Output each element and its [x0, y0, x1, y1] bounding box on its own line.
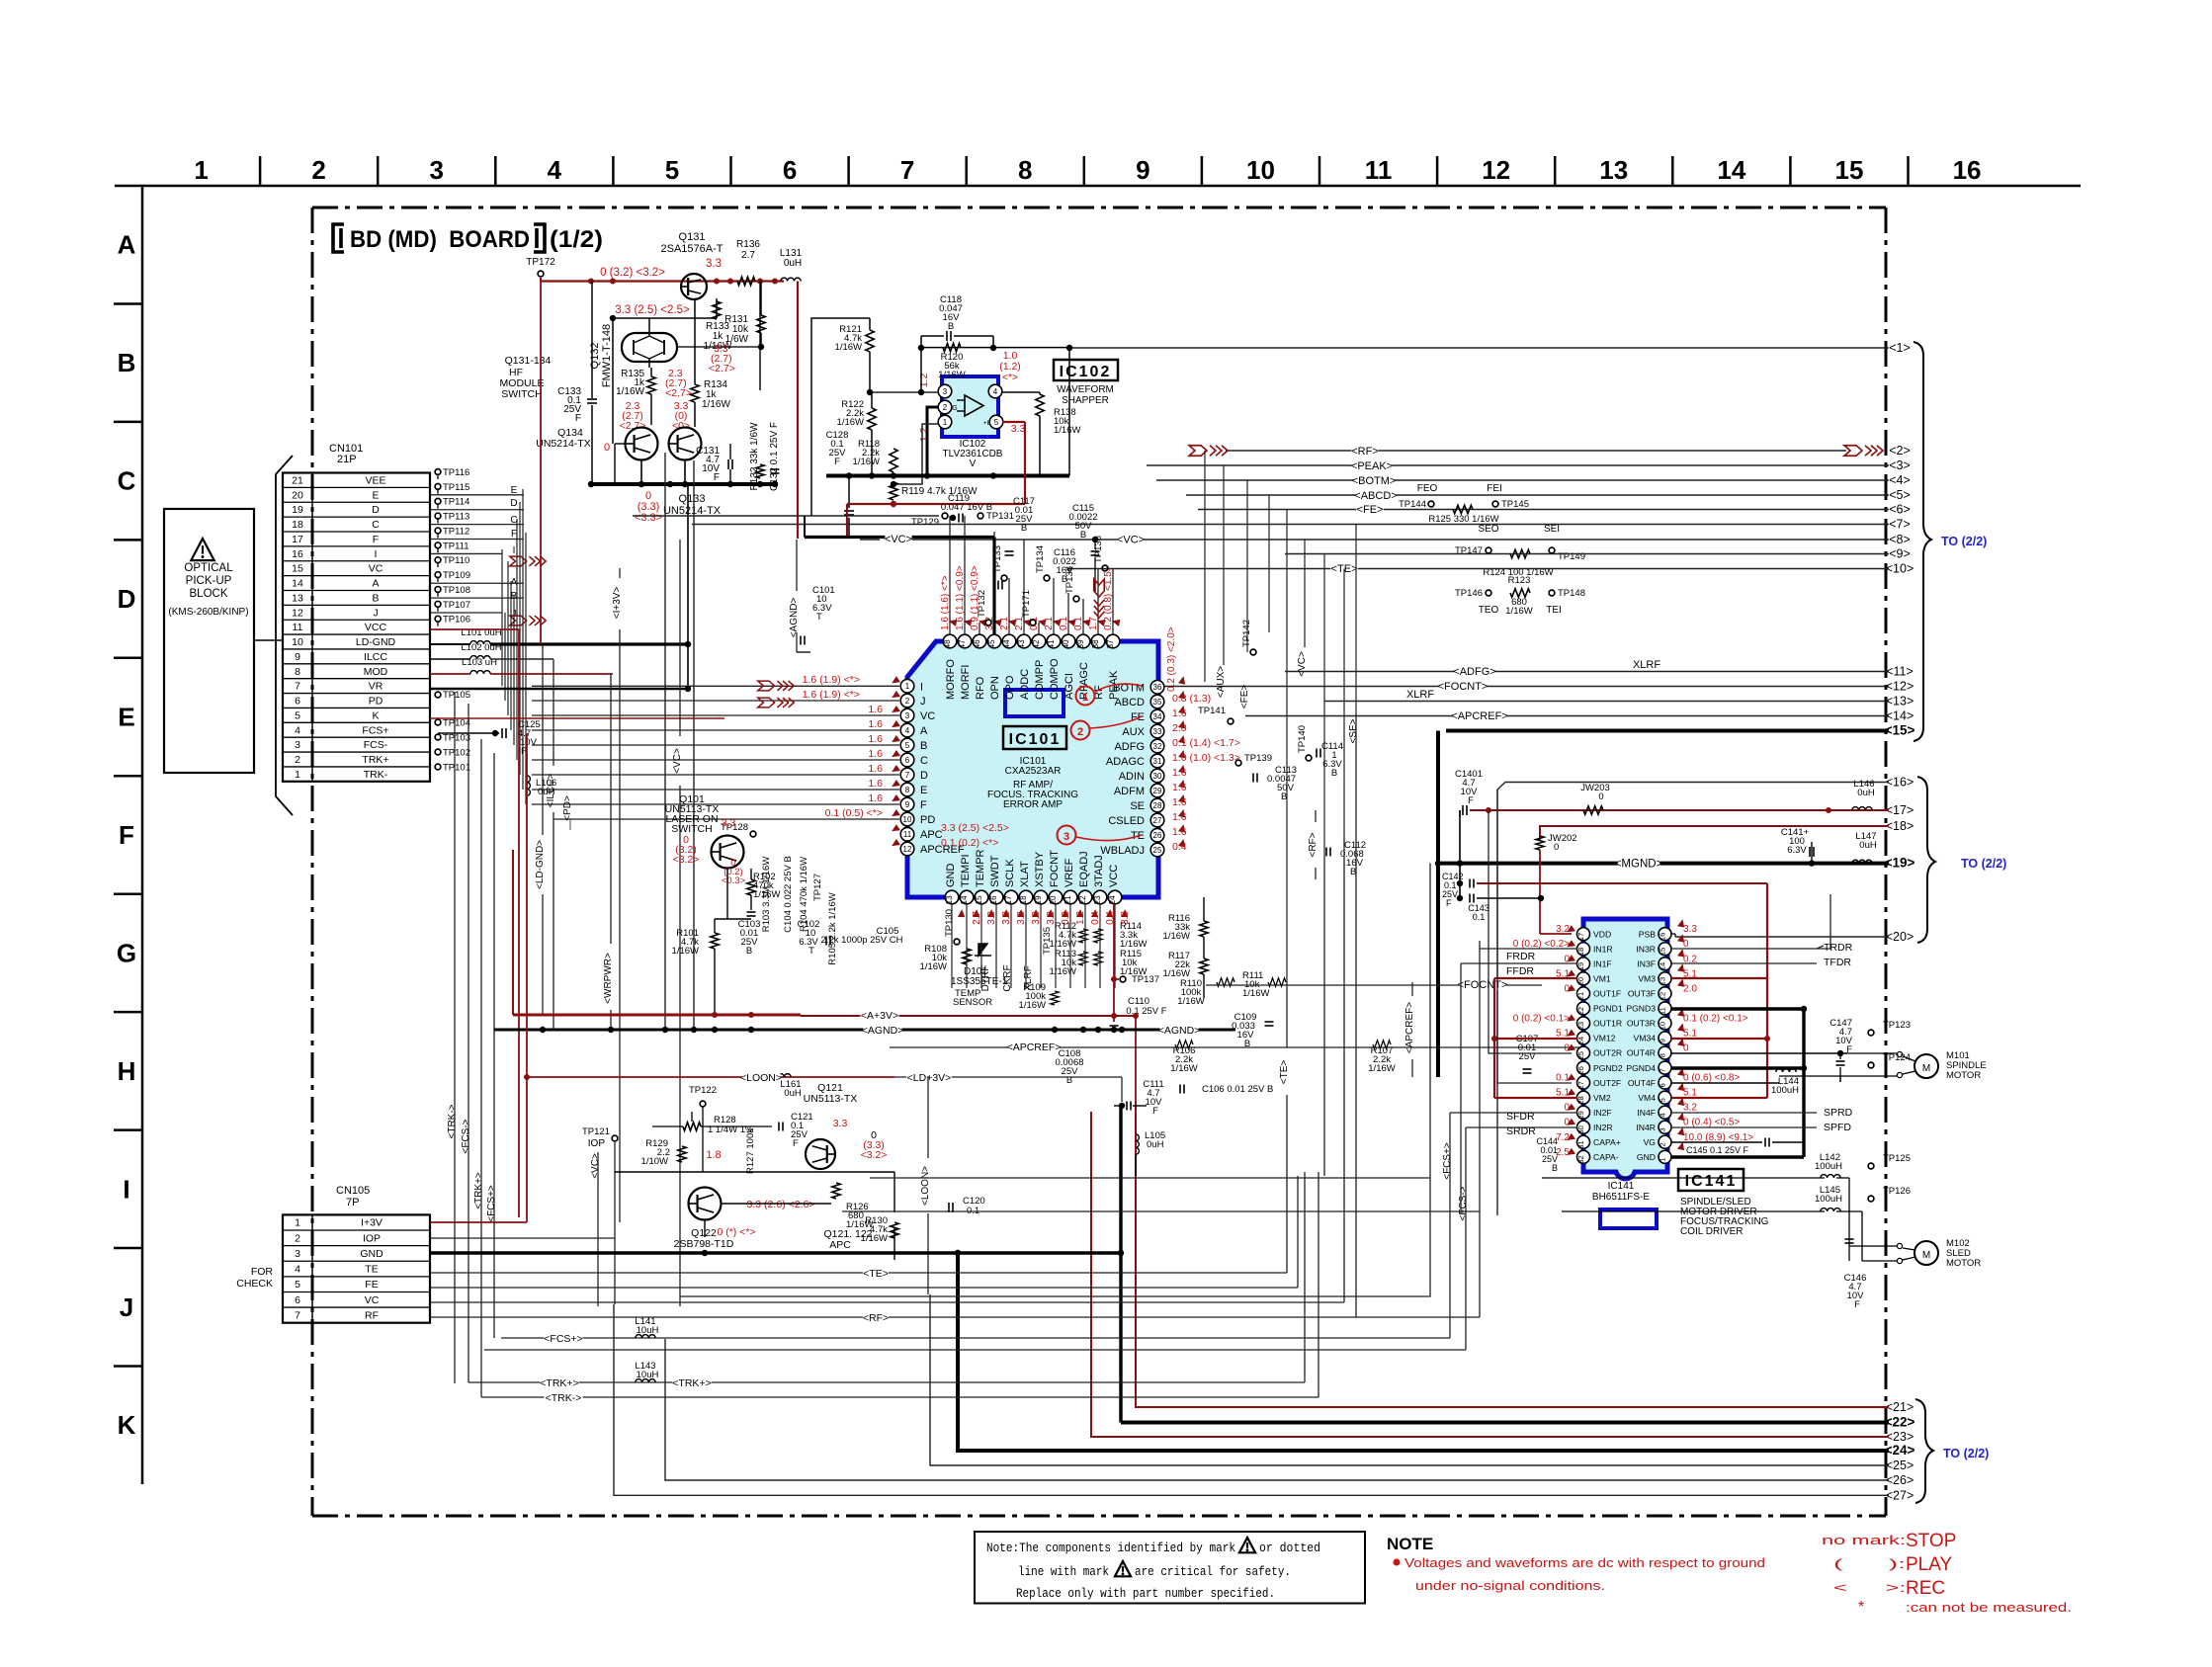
svg-text:<22>: <22> — [1885, 1415, 1915, 1430]
svg-text:20: 20 — [1049, 895, 1058, 904]
svg-text:6.3V: 6.3V — [1787, 845, 1807, 856]
wire to node 4 — [1156, 479, 1889, 481]
IC102 pin 2 — [938, 400, 952, 414]
svg-text:Voltages and waveforms are dc: Voltages and waveforms are dc with respe… — [1404, 1555, 1765, 1570]
svg-text:M: M — [1922, 1250, 1930, 1261]
svg-text:2: 2 — [295, 1232, 300, 1244]
svg-text:ILCC: ILCC — [364, 651, 387, 663]
svg-text:3TADJ: 3TADJ — [1093, 855, 1105, 887]
svg-text:20: 20 — [1576, 977, 1585, 985]
IC101 pin 18 — [1019, 890, 1033, 904]
svg-text:WBLADJ: WBLADJ — [1100, 845, 1145, 857]
capacitor C145 — [1764, 1138, 1766, 1147]
resistor R133 — [713, 301, 721, 319]
IC101 pin 37 — [1106, 634, 1120, 648]
IC141 pin 27 — [1577, 1076, 1590, 1089]
border ruler top line — [115, 185, 2081, 188]
svg-text:IOP: IOP — [588, 1138, 606, 1149]
IC101 pin 21 — [1063, 890, 1077, 904]
motor M102 — [1914, 1241, 1938, 1265]
title BD (MD) BOARD 1/2 — [333, 224, 344, 252]
svg-text:30: 30 — [1576, 1125, 1585, 1133]
net label LD+3V — [906, 1072, 952, 1084]
svg-text:<MGND>: <MGND> — [1615, 859, 1663, 871]
svg-text:10: 10 — [292, 636, 303, 648]
svg-text:TO (2/2): TO (2/2) — [1943, 1447, 1989, 1460]
svg-text:<3.3>: <3.3> — [635, 512, 662, 524]
svg-text:SPRD: SPRD — [1824, 1107, 1853, 1119]
svg-text:TP112: TP112 — [443, 526, 469, 537]
svg-text:<ABCD>: <ABCD> — [1354, 490, 1397, 502]
svg-text:TP136: TP136 — [1064, 566, 1075, 594]
svg-text:IN4F: IN4F — [1637, 1108, 1656, 1118]
svg-text:XSTBY: XSTBY — [1034, 851, 1046, 887]
svg-text:10: 10 — [903, 815, 912, 824]
svg-text:I: I — [375, 548, 378, 560]
test point TP141 — [1228, 718, 1234, 724]
wire pin2 route — [927, 407, 939, 476]
IC101 red circled 1 — [1076, 687, 1095, 706]
bus thick black B-C row — [591, 482, 778, 486]
svg-text:21: 21 — [1576, 992, 1585, 1000]
jumper JW202 — [1536, 836, 1544, 850]
svg-text:VM4: VM4 — [1638, 1093, 1656, 1103]
vertical wire 696 — [687, 484, 689, 689]
resistor R120 — [943, 343, 961, 351]
svg-text:NOTE: NOTE — [1387, 1535, 1433, 1553]
svg-text:39: 39 — [1076, 639, 1085, 648]
svg-text:TP122: TP122 — [689, 1085, 717, 1096]
svg-text:ABCD: ABCD — [1114, 697, 1145, 708]
svg-text:TRK+: TRK+ — [362, 754, 388, 766]
svg-text:D: D — [510, 498, 517, 509]
svg-text:14: 14 — [1659, 962, 1667, 970]
svg-text:<FCS+>: <FCS+> — [1442, 1142, 1453, 1180]
svg-text:BH6511FS-E: BH6511FS-E — [1592, 1192, 1651, 1203]
svg-text:FE: FE — [1131, 711, 1145, 723]
test point TP132 — [985, 620, 991, 625]
IC101 pin 16 — [989, 890, 1003, 904]
capacitor C120 — [948, 1203, 950, 1212]
svg-text:37: 37 — [1106, 639, 1115, 648]
resistor R118 — [890, 449, 897, 472]
wire to node 27 — [614, 1304, 1889, 1495]
svg-text:<FCS->: <FCS-> — [1458, 1186, 1469, 1220]
IC141 pin 2 — [1659, 1135, 1671, 1148]
test point TP126 — [1868, 1196, 1874, 1202]
svg-text:CXA2523AR: CXA2523AR — [1005, 766, 1062, 777]
svg-text:REC: REC — [1906, 1578, 1945, 1599]
IC141 inner blue rect — [1600, 1209, 1657, 1228]
svg-text:0: 0 — [604, 442, 610, 454]
svg-text:TRK-: TRK- — [364, 769, 388, 781]
connector CN101 21P table — [283, 473, 430, 782]
svg-text:17: 17 — [292, 534, 303, 545]
svg-text:UN5214-TX: UN5214-TX — [536, 438, 590, 450]
svg-text:F: F — [834, 457, 840, 467]
test point TP105 — [435, 692, 441, 698]
wire to node 20 — [1675, 936, 1889, 938]
svg-text:TP110: TP110 — [443, 555, 469, 566]
svg-text:EQADJ: EQADJ — [1078, 851, 1090, 887]
IC101 pin 8 — [900, 783, 914, 796]
connector CN105 7P table — [283, 1214, 430, 1322]
svg-text:18: 18 — [292, 519, 303, 531]
svg-text:11: 11 — [293, 622, 303, 633]
svg-text:15: 15 — [1659, 948, 1667, 956]
svg-text:0.1 (1.4) <1.7>: 0.1 (1.4) <1.7> — [1172, 737, 1240, 749]
IC141 pin 22 — [1577, 1002, 1590, 1015]
IC101 pin 7 — [900, 768, 914, 782]
svg-text:< >:: < >: — [1833, 1580, 1906, 1595]
svg-text:34: 34 — [1153, 712, 1162, 721]
IC101 pin red tick marks — [949, 617, 960, 627]
svg-text:TP137: TP137 — [1132, 974, 1159, 985]
svg-text:R105 2.2k 1/16W: R105 2.2k 1/16W — [827, 892, 838, 964]
svg-text:FCS-: FCS- — [364, 739, 388, 751]
svg-text:E: E — [920, 785, 927, 796]
svg-text:5: 5 — [994, 418, 999, 427]
IC141 pin 7 — [1659, 1061, 1671, 1074]
wire IC102 feedback top — [921, 347, 1069, 349]
svg-text:<PD>: <PD> — [562, 795, 573, 821]
wires IC101 top pins up — [949, 516, 951, 634]
bus thick black C-row right — [826, 474, 1069, 478]
test point TP147 — [1486, 547, 1491, 553]
red bus from TP172 — [540, 278, 542, 282]
svg-text:11: 11 — [903, 830, 912, 839]
svg-text:R103 3.3M 1/16W: R103 3.3M 1/16W — [761, 857, 772, 933]
svg-text:BLOCK: BLOCK — [190, 588, 228, 600]
svg-text:SEI: SEI — [1544, 524, 1560, 535]
svg-text:R132 33k 1/6W: R132 33k 1/6W — [749, 422, 760, 490]
IC101 pin 42 — [1032, 634, 1046, 648]
svg-text:IN3F: IN3F — [1637, 959, 1656, 968]
IC101 pin 1 — [900, 680, 914, 694]
svg-text:1.6: 1.6 — [868, 792, 883, 804]
svg-text:FFDR: FFDR — [1506, 965, 1534, 977]
svg-text:1.8: 1.8 — [706, 1149, 721, 1161]
IC141 pin 14 — [1659, 958, 1671, 970]
svg-text:0.1: 0.1 — [1556, 1073, 1570, 1084]
svg-text:<11>: <11> — [1886, 665, 1914, 679]
svg-text:<RF>: <RF> — [1351, 446, 1379, 458]
IC102 pin 4 — [988, 384, 1002, 398]
svg-text:11: 11 — [1365, 155, 1393, 185]
svg-text:1/16W: 1/16W — [861, 1233, 888, 1244]
svg-text:GND: GND — [360, 1248, 383, 1260]
svg-text:28: 28 — [1153, 801, 1162, 810]
motor driver IC141 body — [1583, 919, 1667, 1179]
svg-text:F: F — [373, 534, 379, 545]
svg-text:XLRF: XLRF — [1406, 689, 1434, 701]
svg-text:8: 8 — [1018, 155, 1032, 185]
svg-text:0.047 16V B: 0.047 16V B — [941, 502, 992, 513]
svg-text:2: 2 — [295, 754, 300, 766]
wire to node 9 — [1285, 553, 1889, 555]
inductor L147 — [1852, 860, 1872, 863]
svg-text:7: 7 — [900, 155, 914, 185]
IC141 pin 28 — [1577, 1091, 1590, 1104]
IC101 designator box — [1003, 726, 1066, 749]
svg-text:R136: R136 — [736, 239, 760, 250]
inductor L161 — [771, 1074, 791, 1077]
svg-text:TE: TE — [365, 1264, 378, 1276]
svg-text:3.3: 3.3 — [722, 817, 736, 829]
svg-text:TP149: TP149 — [1558, 551, 1585, 562]
svg-text:<24>: <24> — [1885, 1443, 1915, 1458]
svg-text:0.1 (0.2) <0.1>: 0.1 (0.2) <0.1> — [1683, 1013, 1748, 1024]
svg-text:0 (3.2) <3.2>: 0 (3.2) <3.2> — [600, 267, 665, 279]
svg-text:13: 13 — [945, 895, 954, 904]
svg-text:B: B — [948, 321, 954, 332]
wire VR row bold — [430, 688, 688, 691]
wires Q133 Q134 emitters down — [615, 443, 626, 445]
svg-text:TP116: TP116 — [443, 467, 469, 478]
net label VC mid — [1117, 534, 1144, 545]
IC101 pin 24 — [1108, 890, 1122, 904]
svg-text:<RF>: <RF> — [863, 1312, 889, 1324]
svg-text:VCC: VCC — [365, 622, 387, 633]
capacitor C110 — [1110, 1025, 1119, 1027]
svg-text:TO (2/2): TO (2/2) — [1941, 535, 1987, 548]
svg-text:TEMPI: TEMPI — [960, 854, 972, 887]
IC101 pin 14 — [960, 890, 974, 904]
svg-text:24: 24 — [1576, 1037, 1585, 1044]
transistor Q131 — [681, 274, 707, 299]
svg-text:<1>: <1> — [1889, 341, 1911, 355]
svg-text:10.0 (8.9) <9.1>: 10.0 (8.9) <9.1> — [1683, 1132, 1753, 1143]
svg-text:<7>: <7> — [1889, 518, 1911, 532]
svg-text:3: 3 — [295, 739, 300, 751]
svg-text:MOD: MOD — [364, 666, 388, 678]
svg-text:(1/2): (1/2) — [550, 226, 603, 253]
svg-text:18: 18 — [1576, 948, 1585, 956]
svg-text:26: 26 — [1576, 1066, 1585, 1074]
test point TP136 — [1073, 596, 1079, 602]
svg-text:B: B — [1331, 768, 1337, 779]
IC101 pin 34 — [1150, 709, 1164, 723]
inductor L144 — [1776, 1069, 1796, 1072]
svg-text:<TRK->: <TRK-> — [546, 1392, 582, 1404]
red wire down from 18 — [1539, 863, 1541, 865]
IC101 pin 15 — [975, 890, 988, 904]
svg-text:0.1 (0.5) <*>: 0.1 (0.5) <*> — [825, 807, 883, 819]
svg-text:C: C — [372, 519, 380, 531]
wire to node 15 bold — [1446, 729, 1889, 733]
svg-text:3.3: 3.3 — [1031, 911, 1042, 925]
wire AGND bold — [494, 1029, 909, 1032]
jumper JW203 — [1583, 806, 1603, 814]
svg-text:1: 1 — [1659, 1157, 1667, 1161]
svg-text:0.8 (1.3): 0.8 (1.3) — [1172, 693, 1211, 705]
resistor R124 — [1510, 549, 1530, 557]
svg-text:7P: 7P — [346, 1197, 359, 1209]
svg-text:7.2: 7.2 — [1556, 1132, 1570, 1143]
svg-text:TFDR: TFDR — [1824, 957, 1851, 968]
svg-text:0uH: 0uH — [1859, 840, 1877, 851]
svg-text:23: 23 — [1576, 1022, 1585, 1030]
IC101 pin 39 — [1076, 634, 1090, 648]
svg-text:OUT1R: OUT1R — [1593, 1019, 1622, 1029]
svg-text:1/16W: 1/16W — [1050, 966, 1076, 977]
svg-text:COMPO: COMPO — [1049, 658, 1061, 700]
red chevrons at IC101 pins I J — [758, 681, 794, 691]
net label PEAK — [1352, 460, 1393, 472]
svg-text:OPN: OPN — [989, 676, 1001, 700]
svg-text:0.2 (0.3) <2.0>: 0.2 (0.3) <2.0> — [1166, 626, 1177, 692]
svg-text:<LD-GND>: <LD-GND> — [535, 840, 546, 889]
net label FCS+ low — [544, 1333, 582, 1345]
svg-text:11: 11 — [1659, 1007, 1667, 1015]
svg-text:TP123: TP123 — [1883, 1020, 1911, 1031]
svg-text:21: 21 — [292, 474, 303, 486]
svg-text:2.2k 1000p 25V CH: 2.2k 1000p 25V CH — [821, 935, 903, 946]
svg-text::can not be measured.: :can not be measured. — [1906, 1600, 2072, 1615]
wire IOP row — [430, 1237, 615, 1239]
red loop C142 region — [1570, 919, 1572, 1097]
resistor R126 — [832, 1183, 840, 1199]
brace TO 2/2 group 16-20 — [1917, 777, 1935, 943]
svg-text:6: 6 — [783, 155, 797, 185]
svg-text:no mark:: no mark: — [1822, 1533, 1906, 1547]
svg-text:TP125: TP125 — [1883, 1153, 1911, 1164]
wires bus to IC101 left pins — [532, 685, 899, 687]
svg-text:0: 0 — [1683, 1043, 1689, 1054]
svg-text:F: F — [1152, 1106, 1158, 1117]
svg-text:TEO: TEO — [1479, 605, 1499, 616]
svg-text:1.6: 1.6 — [1172, 708, 1187, 719]
svg-text:<APCREF>: <APCREF> — [1404, 1002, 1415, 1053]
net label AGND right — [1159, 1025, 1198, 1037]
svg-text:3.3 (2.6) <2.6>: 3.3 (2.6) <2.6> — [747, 1199, 815, 1210]
svg-text:OUT3R: OUT3R — [1627, 1019, 1656, 1029]
resistor R102 — [747, 879, 755, 895]
test point TP172 — [538, 271, 544, 277]
svg-text:B: B — [920, 740, 927, 752]
svg-text:30: 30 — [1153, 772, 1162, 781]
border ruler left line — [141, 186, 144, 1484]
svg-text:20: 20 — [292, 489, 303, 501]
IC101 pin 22 — [1078, 890, 1092, 904]
svg-text:F: F — [1446, 898, 1452, 908]
svg-text:TP132: TP132 — [977, 590, 987, 618]
svg-text:<20>: <20> — [1886, 930, 1914, 944]
svg-text:2.0: 2.0 — [1172, 722, 1187, 734]
transistor pair Q132 — [622, 333, 677, 362]
svg-text:40: 40 — [1062, 639, 1070, 648]
net label ADFG — [1455, 666, 1495, 678]
IC141 designator box — [1678, 1169, 1744, 1191]
svg-text:<19>: <19> — [1885, 856, 1915, 871]
svg-text:IN4R: IN4R — [1636, 1123, 1656, 1132]
svg-text:3.3: 3.3 — [1016, 911, 1027, 925]
svg-text:3: 3 — [905, 711, 910, 720]
svg-text:TP113: TP113 — [443, 512, 469, 523]
svg-text:TP107: TP107 — [443, 600, 470, 611]
svg-text:1/16W: 1/16W — [853, 457, 880, 467]
svg-text:0uH: 0uH — [538, 787, 555, 797]
IC101 pin 4 — [900, 723, 914, 737]
svg-text:<18>: <18> — [1886, 819, 1914, 833]
svg-text:CSLED: CSLED — [1108, 815, 1145, 827]
svg-text:5.1: 5.1 — [1683, 1028, 1697, 1039]
svg-text:TP142: TP142 — [1241, 620, 1252, 647]
svg-text:0uH: 0uH — [1147, 1139, 1164, 1150]
wire GND CN105 bold — [430, 1251, 1121, 1254]
svg-text:<3.2>: <3.2> — [861, 1149, 888, 1161]
IC102 pin 3 — [938, 384, 952, 398]
IC141 pin 21 — [1577, 987, 1590, 1000]
svg-text:PLAY: PLAY — [1906, 1554, 1953, 1575]
test point TP137 — [1120, 976, 1126, 982]
svg-text:SCLK: SCLK — [1004, 859, 1016, 887]
svg-text:44: 44 — [1002, 639, 1011, 648]
svg-text:<6>: <6> — [1889, 503, 1911, 517]
wire to node 13 — [1324, 701, 1889, 703]
svg-text:PGND3: PGND3 — [1626, 1004, 1656, 1014]
svg-text:TP101: TP101 — [443, 763, 470, 774]
svg-text:TP144: TP144 — [1399, 499, 1426, 510]
svg-text:1.6: 1.6 — [868, 704, 883, 715]
capacitor C132 — [771, 468, 780, 470]
net label TRK+ low b — [672, 1377, 711, 1389]
brace TO 2/2 group 21-27 — [1915, 1399, 1933, 1503]
svg-text:TP102: TP102 — [443, 748, 470, 759]
svg-text:TP121: TP121 — [582, 1126, 610, 1137]
svg-text:2: 2 — [311, 155, 325, 185]
svg-text:OUT4R: OUT4R — [1627, 1048, 1656, 1058]
svg-text:1: 1 — [194, 155, 208, 185]
svg-text:2.7: 2.7 — [972, 911, 982, 925]
svg-text:<15>: <15> — [1885, 723, 1915, 738]
svg-text:VM34: VM34 — [1634, 1034, 1657, 1043]
svg-text:<VC>: <VC> — [1117, 535, 1145, 546]
svg-text:FEI: FEI — [1487, 483, 1502, 494]
svg-text:1/16W: 1/16W — [1163, 931, 1190, 942]
svg-text:1.6 (1.9) <*>: 1.6 (1.9) <*> — [803, 689, 860, 701]
svg-text:I+3V: I+3V — [361, 1217, 383, 1229]
svg-text:D: D — [920, 770, 928, 782]
column tick marks — [259, 156, 262, 186]
svg-text:3: 3 — [943, 387, 948, 396]
IC141 pin 1 — [1659, 1150, 1671, 1163]
IC141 pin 29 — [1577, 1106, 1590, 1119]
wire RF CN105 — [430, 1316, 1480, 1318]
net label APCREF mid — [890, 1046, 1581, 1048]
IC101 pin 30 — [1150, 769, 1164, 783]
op-amp IC102 body — [942, 376, 998, 437]
IC101 pin 19 — [1034, 890, 1048, 904]
wire TP129 row — [633, 515, 939, 517]
svg-text:TP115: TP115 — [443, 482, 469, 493]
capacitor C141 — [1809, 847, 1811, 857]
svg-text:29: 29 — [1153, 787, 1162, 795]
IC101 pin 2 — [900, 694, 914, 708]
wire AGND right bold — [909, 1029, 1235, 1032]
svg-text:1.6: 1.6 — [868, 778, 883, 790]
svg-text:VG: VG — [1644, 1137, 1657, 1147]
svg-text:<LOON>: <LOON> — [920, 1166, 931, 1206]
svg-text:MOTOR: MOTOR — [1946, 1070, 1981, 1081]
svg-text:5.1: 5.1 — [1556, 1028, 1570, 1039]
svg-text:UN5113-TX: UN5113-TX — [804, 1093, 858, 1105]
svg-text:F: F — [575, 413, 581, 424]
svg-text:<21>: <21> — [1886, 1400, 1914, 1414]
svg-text:XLAT: XLAT — [1019, 861, 1031, 887]
test point TP130 — [954, 939, 960, 945]
wire to node 12 FOCNT — [1154, 686, 1889, 688]
